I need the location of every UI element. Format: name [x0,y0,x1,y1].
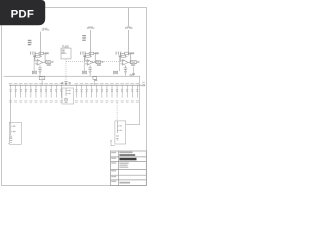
svg-text:12 Vcc: 12 Vcc [41,28,50,32]
capacitor C9 [124,65,127,71]
svg-text:PDF: PDF [11,8,34,20]
node 12Vcc label TP3 [125,26,134,30]
capacitor C5 [88,65,91,71]
ground [39,71,42,76]
connector J10 center [62,88,74,104]
wire feedback loop U1B [84,53,96,64]
wire left rail 1 [33,56,35,71]
op-amp U2A [123,60,129,66]
connector K9 [114,71,118,74]
trimmer P1 output [46,61,54,66]
wire main bus [9,84,143,86]
wire 12Vcc feed to R5 [90,30,92,55]
wire dashed net to channel 3 [66,61,122,63]
title block [111,151,147,186]
connector K5 [82,71,86,74]
ground [89,71,92,76]
op-amp U1A [37,60,43,66]
resistor R9 input [119,55,126,57]
resistor R1 input [33,55,40,57]
connector J1 input jack [8,122,21,144]
wire dashed bus drop to J2 [116,103,118,121]
wire left rail 5 [83,56,85,71]
value label stack R5 10k 1% [82,35,86,41]
svg-text:12 Vcc: 12 Vcc [125,26,134,30]
wire probe arrow J2 bottom [110,140,115,146]
resistor R9f feedback [125,52,135,54]
op-amp U1B [87,60,93,66]
PDF badge [0,0,45,25]
svg-text:12 Vcc: 12 Vcc [87,26,96,30]
node 12Vcc label TP2 [87,26,96,30]
schematic sheet border frame [2,8,147,186]
node 12Vcc label TP1 [41,28,50,32]
wire left rail 9 [119,56,121,71]
wire feedback from J2 to right rail [126,76,140,124]
resistor R14 tap [93,77,97,86]
resistor R5 input [83,55,90,57]
trimmer P9 output [130,61,139,66]
capacitor C1 [38,65,41,71]
resistor R13 tap [39,77,45,86]
wire dashed net IC pin to D-LED [65,59,67,81]
resistor R5f feedback [89,52,99,54]
capacitor C10 output [130,67,135,77]
value label stack R1 10k 1% [28,40,32,46]
wire feedback loop U2A [120,53,131,64]
LED D1 [61,82,71,86]
connector K1 [32,71,36,74]
wire output net rail [4,75,140,77]
test pins J1 [30,52,36,55]
op-amp IC U1 TL082 [61,45,71,58]
wire feedback loop U1A [34,53,46,64]
resistor R1f feedback [39,52,49,54]
wire 12Vcc feed from border to R9 [127,8,129,55]
diode array D2-D25 on bus [9,83,13,103]
test pins J5 [80,52,86,55]
wire bus drop to J1 [10,98,12,123]
connector arrow bus right end [142,82,145,87]
trimmer P5 output [96,61,104,66]
test pins J9 [115,52,121,55]
connector J2 output [115,121,126,144]
wire 12Vcc feed to R1 [40,32,42,56]
ground [124,71,127,76]
